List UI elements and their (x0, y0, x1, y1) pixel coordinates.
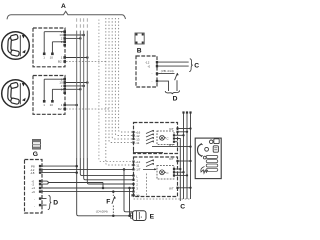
bus wire 4 (86, 18, 88, 31)
svg-text:+6: +6 (32, 190, 36, 194)
svg-text:6/T: 6/T (169, 127, 174, 131)
brace D left (48, 195, 51, 209)
brace A (7, 11, 126, 19)
underbrace D (165, 90, 179, 94)
svg-text:9: 9 (61, 40, 63, 44)
svg-text:B2: B2 (58, 60, 62, 64)
R2 connector pins L,1,2,3,-,1A (132, 175, 134, 177)
junction vertical x124 (124, 169, 133, 211)
junction vertical x103 (102, 183, 104, 189)
svg-text:F: F (106, 198, 110, 205)
TB wires (41, 165, 76, 167)
1A stub (131, 194, 134, 196)
junction vertical x129.5 (129, 188, 131, 216)
R2 right wires (179, 160, 191, 162)
svg-text:-: - (34, 204, 35, 208)
svg-text:D: D (173, 96, 178, 103)
dashed bottom wire (134, 198, 191, 200)
door module connector box K2 (33, 76, 66, 115)
svg-text:-: - (152, 72, 153, 76)
wires K2 to bus (66, 82, 87, 84)
svg-text:A: A (61, 3, 66, 10)
wire to C (158, 65, 189, 67)
TB lower pins to D (41, 199, 46, 206)
svg-text:D: D (53, 200, 58, 207)
svg-text:10: 10 (50, 103, 54, 107)
dashed harness columns (99, 18, 134, 165)
svg-text:-18: -18 (30, 171, 35, 175)
switch S1 to D (158, 73, 174, 75)
svg-text:C: C (194, 62, 199, 69)
door lock actuator icon 2 (2, 80, 30, 108)
connector E (131, 211, 146, 221)
motor module R1i (157, 131, 174, 145)
svg-text:G: G (33, 151, 38, 158)
brace C right (189, 59, 192, 72)
svg-text:-1/T: -1/T (135, 168, 141, 172)
wires K1 to bus (66, 34, 84, 36)
control unit connector box K3 (136, 56, 158, 87)
svg-text:10: 10 (50, 56, 54, 60)
wire to D (158, 81, 168, 91)
legend box (195, 138, 221, 179)
svg-text:-: - (152, 79, 153, 83)
bus wire 1 (76, 18, 78, 31)
svg-text:8/T: 8/T (169, 187, 174, 191)
R1 right wires (179, 128, 191, 130)
svg-text:6/T: 6/T (169, 157, 174, 161)
door lock actuator icon 1 (2, 32, 30, 60)
C harness verticals (190, 114, 192, 200)
wire to C (158, 61, 189, 63)
bus wire 2 (79, 18, 81, 31)
svg-text:(VB..014): (VB..014) (161, 69, 174, 73)
component B (135, 33, 144, 44)
relay box R2 (132, 157, 178, 198)
svg-text:-: - (34, 198, 35, 202)
svg-text:(C4.004): (C4.004) (96, 210, 108, 214)
motor module R2i (157, 166, 174, 180)
svg-text:B2: B2 (58, 107, 62, 111)
svg-text:-0: -0 (148, 64, 151, 68)
relay box R1 (132, 123, 190, 154)
bus wire 3 (83, 18, 85, 31)
switch F (112, 192, 114, 216)
svg-text:9: 9 (61, 87, 63, 91)
svg-text:C: C (180, 203, 185, 210)
svg-text:-11: -11 (135, 141, 140, 145)
fuse G (33, 140, 41, 150)
svg-text:B: B (137, 48, 142, 55)
svg-text:E: E (150, 214, 155, 221)
door module connector box K1 (33, 28, 66, 67)
main unit box TB (25, 160, 43, 214)
